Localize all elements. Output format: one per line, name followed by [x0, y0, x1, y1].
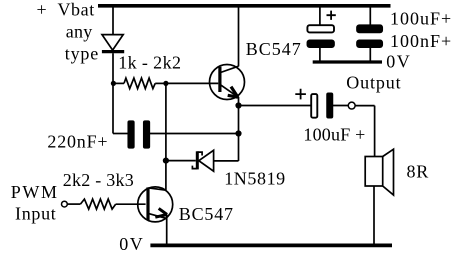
svg-text:Input: Input — [15, 203, 57, 223]
svg-text:PWM: PWM — [11, 182, 59, 202]
svg-text:1N5819: 1N5819 — [224, 168, 286, 188]
svg-text:2k2 - 3k3: 2k2 - 3k3 — [63, 170, 134, 190]
svg-text:BC547: BC547 — [179, 204, 234, 224]
svg-text:0V: 0V — [119, 234, 144, 254]
svg-text:type: type — [65, 44, 99, 64]
svg-text:any: any — [66, 22, 93, 42]
svg-text:BC547: BC547 — [246, 39, 302, 59]
svg-text:8R: 8R — [407, 161, 430, 181]
svg-text:100uF+: 100uF+ — [390, 9, 452, 29]
svg-text:220nF+: 220nF+ — [47, 131, 108, 151]
svg-text:+ Vbat: + Vbat — [37, 0, 95, 20]
svg-text:Output: Output — [346, 73, 401, 93]
svg-text:100nF+: 100nF+ — [390, 31, 452, 51]
svg-text:0V: 0V — [386, 52, 411, 72]
svg-text:100uF +: 100uF + — [303, 124, 365, 144]
svg-text:1k - 2k2: 1k - 2k2 — [118, 53, 181, 73]
